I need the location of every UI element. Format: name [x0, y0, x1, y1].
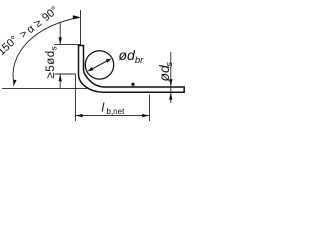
l_b,net dimension line	[75, 115, 149, 117]
arrowhead pointing left	[76, 114, 83, 117]
extension line at bend tangent	[55, 73, 76, 75]
dot on bar	[131, 83, 134, 86]
arrowhead lower-left on circle	[88, 67, 94, 72]
extension line top for >=5 phi ds	[55, 44, 81, 46]
l_b,net left extension line	[74, 74, 76, 121]
dimension line >=5 phi ds lower segment	[59, 74, 61, 88]
wire: angle vertical extension line	[80, 10, 82, 46]
phi ds dimension line crossing bar	[170, 86, 172, 93]
arrowhead pointing right	[142, 114, 149, 117]
angle arc dimension	[13, 18, 80, 85]
bent rebar outline	[79, 46, 185, 93]
phi ds dimension upper segment	[170, 52, 172, 86]
svg-text:≥5øds: ≥5øds	[45, 46, 58, 79]
arrowhead pointing up	[59, 74, 62, 81]
phi ds dimension lower segment	[170, 93, 172, 103]
svg-text:b,net: b,net	[107, 107, 126, 116]
label >=5 phi ds (vertical)	[45, 46, 58, 79]
arrowhead arc top (points right)	[73, 15, 80, 19]
wire: angle horizontal extension line	[2, 87, 89, 89]
arrowhead arc bottom (points down)	[13, 80, 16, 87]
arrowhead upper-right on circle	[106, 58, 112, 63]
mandrel diameter line	[90, 60, 110, 71]
dimension line >=5 phi ds upper segment	[59, 22, 61, 44]
arrowhead pointing up to bar bottom	[169, 93, 172, 100]
arrowhead pointing down	[59, 37, 62, 44]
arrowhead pointing down to bar top	[169, 79, 172, 86]
l_b,net right extension line	[149, 95, 151, 122]
label phi ds (vertical)	[156, 62, 175, 82]
mandrel circle	[85, 51, 113, 79]
svg-text:l: l	[102, 101, 105, 115]
